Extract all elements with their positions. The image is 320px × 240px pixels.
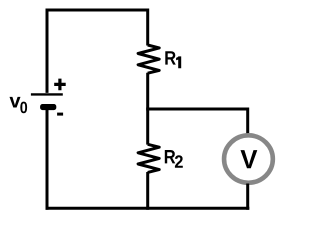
wire left vertical (top, to battery +) <box>46 9 49 93</box>
wire middle vertical (R1 to R2 through node) <box>146 73 149 145</box>
battery V0 positive plate <box>31 93 63 95</box>
wire right vertical (to voltmeter top) <box>246 108 249 135</box>
label R2 <box>165 150 176 163</box>
wire middle horizontal (node to voltmeter branch) <box>146 108 248 111</box>
wire right vertical (voltmeter bottom to bottom wire) <box>246 184 249 210</box>
wire left vertical (battery - to bottom) <box>46 108 49 210</box>
voltmeter V circle <box>224 135 273 182</box>
resistor R1 <box>138 45 159 73</box>
battery minus sign <box>57 113 63 116</box>
label v0 <box>10 97 21 108</box>
wire top horizontal <box>46 9 150 12</box>
label R1 <box>165 51 176 64</box>
wire bottom horizontal <box>46 207 250 210</box>
resistor R2 <box>138 144 159 172</box>
voltmeter V label <box>241 150 258 168</box>
battery plus sign <box>54 79 65 91</box>
wire middle vertical (top wire to R1) <box>146 9 149 46</box>
battery V0 negative plate <box>40 104 56 110</box>
wire middle vertical (R2 to bottom) <box>146 172 149 210</box>
